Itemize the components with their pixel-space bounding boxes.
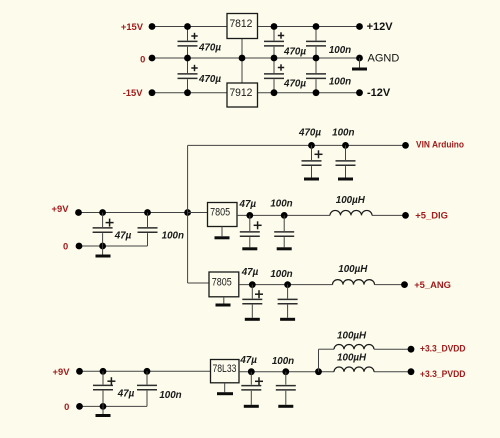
svg-text:+5_ANG: +5_ANG <box>414 279 451 290</box>
svg-text:47µ: 47µ <box>241 267 259 278</box>
svg-text:100n: 100n <box>329 77 351 88</box>
svg-text:100n: 100n <box>270 269 292 280</box>
svg-text:+3.3_PVDD: +3.3_PVDD <box>420 368 466 379</box>
svg-text:47µ: 47µ <box>239 355 257 366</box>
svg-text:+9V: +9V <box>53 366 71 377</box>
svg-text:470µ: 470µ <box>298 127 321 138</box>
svg-text:+9V: +9V <box>52 203 70 214</box>
svg-text:100n: 100n <box>329 45 351 56</box>
svg-text:100n: 100n <box>270 199 292 210</box>
svg-text:47µ: 47µ <box>239 199 257 210</box>
svg-text:AGND: AGND <box>368 52 400 64</box>
svg-text:7805: 7805 <box>212 276 232 288</box>
svg-text:+3.3_DVDD: +3.3_DVDD <box>420 342 466 353</box>
svg-text:47µ: 47µ <box>117 389 135 400</box>
svg-text:-12V: -12V <box>367 87 391 99</box>
svg-text:VIN Arduino: VIN Arduino <box>416 139 464 150</box>
svg-text:7812: 7812 <box>229 18 252 30</box>
svg-text:0: 0 <box>140 53 145 64</box>
svg-text:470µ: 470µ <box>283 79 306 90</box>
svg-text:7805: 7805 <box>210 207 230 219</box>
svg-text:100µH: 100µH <box>337 352 367 363</box>
svg-text:+15V: +15V <box>121 21 144 32</box>
svg-text:100µH: 100µH <box>338 264 368 275</box>
svg-text:470µ: 470µ <box>283 47 306 58</box>
svg-text:78L33: 78L33 <box>212 363 236 375</box>
svg-text:+12V: +12V <box>367 21 394 33</box>
svg-text:100n: 100n <box>272 356 294 367</box>
svg-text:100µH: 100µH <box>337 330 367 341</box>
svg-text:470µ: 470µ <box>198 42 221 53</box>
svg-text:100n: 100n <box>332 127 354 138</box>
svg-text:0: 0 <box>63 241 68 252</box>
svg-text:100µH: 100µH <box>336 195 366 206</box>
svg-text:100n: 100n <box>159 390 181 401</box>
svg-text:47µ: 47µ <box>114 230 132 241</box>
svg-text:100n: 100n <box>162 230 184 241</box>
svg-text:470µ: 470µ <box>198 74 221 85</box>
svg-text:+5_DIG: +5_DIG <box>415 209 448 220</box>
svg-text:7912: 7912 <box>229 87 252 99</box>
svg-text:-15V: -15V <box>123 87 144 98</box>
svg-text:0: 0 <box>64 401 69 412</box>
